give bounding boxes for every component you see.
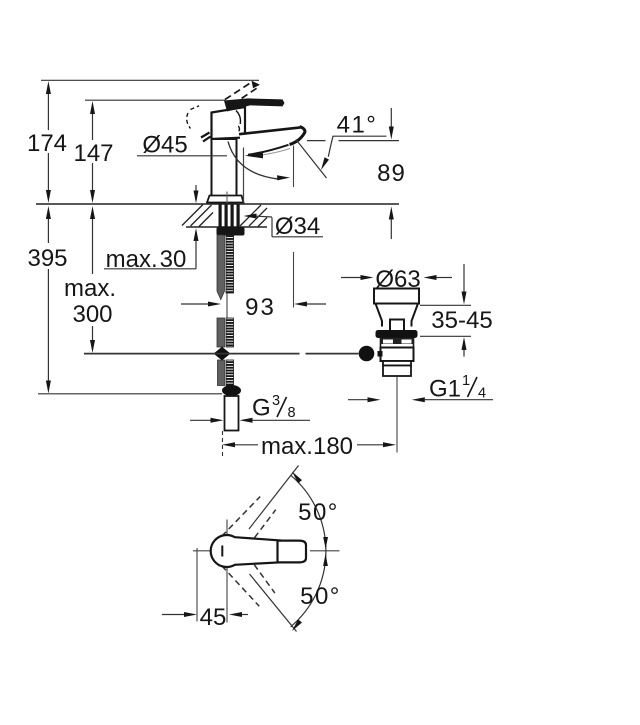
dimension 35-45 bbox=[431, 264, 492, 357]
threaded shank through counter bbox=[219, 205, 240, 228]
svg-text:45: 45 bbox=[200, 604, 227, 631]
spout bbox=[239, 127, 305, 155]
svg-text:41°: 41° bbox=[337, 112, 378, 139]
label G3/8 bbox=[190, 393, 310, 423]
dimension max.30 bbox=[104, 185, 199, 273]
svg-text:93: 93 bbox=[245, 294, 276, 321]
waste cone bbox=[376, 304, 419, 327]
dimension 147 bbox=[73, 101, 113, 203]
waste upper flange bbox=[374, 289, 419, 304]
waste notch section bbox=[381, 338, 414, 348]
svg-text:max.: max. bbox=[64, 275, 116, 302]
svg-text:Ø45: Ø45 bbox=[142, 132, 187, 159]
svg-text:35-45: 35-45 bbox=[431, 307, 492, 334]
handle swing upper ray bbox=[249, 466, 299, 530]
svg-text:max. 30: max. 30 bbox=[106, 246, 187, 273]
label Ø45 bbox=[137, 132, 227, 159]
svg-text:3: 3 bbox=[272, 393, 280, 409]
waste seal band bbox=[376, 330, 418, 338]
dimension max.300 bbox=[64, 206, 116, 353]
svg-text:89: 89 bbox=[377, 160, 406, 187]
label Ø34 bbox=[244, 213, 324, 240]
dimension 174 bbox=[27, 81, 67, 203]
faucet base plinth bbox=[207, 196, 244, 203]
dimension 89 bbox=[377, 108, 406, 239]
svg-text:G1: G1 bbox=[429, 376, 461, 403]
faucet head (cartridge housing) bbox=[212, 107, 246, 139]
handle horizontal centerline bbox=[193, 550, 340, 552]
pull rod upper segment bbox=[217, 235, 225, 300]
handle rotated stem dashed (upper) bbox=[222, 494, 278, 553]
counter hatching left bbox=[182, 205, 213, 227]
axis dashes below hose bbox=[222, 431, 224, 459]
svg-text:Ø34: Ø34 bbox=[275, 213, 320, 240]
svg-text:Ø63: Ø63 bbox=[375, 266, 420, 293]
handle swing arc bbox=[291, 472, 328, 632]
svg-text:8: 8 bbox=[288, 405, 296, 421]
waste pivot box bbox=[390, 320, 404, 332]
waste body bbox=[381, 348, 414, 362]
rod ball joint bbox=[359, 346, 383, 362]
waste centerline below bbox=[396, 377, 398, 453]
waste tailpipe bbox=[383, 366, 411, 377]
dimension Ø63 bbox=[341, 266, 452, 293]
svg-text:147: 147 bbox=[73, 140, 113, 167]
rod centerline in gap bbox=[226, 294, 228, 319]
lever rear tip strokes bbox=[201, 133, 211, 142]
spout outlet reference line bbox=[307, 140, 399, 142]
mounting nut bbox=[217, 227, 245, 236]
handle vertical centerline bbox=[226, 520, 228, 623]
svg-text:4: 4 bbox=[478, 386, 486, 402]
pull rod lower segment bbox=[218, 360, 225, 386]
dimension max.180 bbox=[222, 433, 396, 460]
35-45 upper reference line bbox=[420, 304, 471, 306]
pull rod middle segment bbox=[217, 318, 225, 347]
svg-text:50°: 50° bbox=[298, 499, 339, 526]
horizontal pop-up rod line bbox=[84, 353, 359, 355]
countertop line bbox=[36, 203, 399, 205]
svg-text:1: 1 bbox=[462, 373, 470, 389]
svg-text:174: 174 bbox=[27, 130, 67, 157]
handle swing lower ray bbox=[250, 574, 297, 632]
threaded rod middle segment bbox=[226, 318, 234, 347]
label G1 1/4 bbox=[348, 373, 493, 403]
dimension 45 bbox=[162, 548, 248, 631]
dimension 395 bbox=[27, 206, 67, 394]
svg-text:max.180: max.180 bbox=[261, 433, 353, 460]
dimension 93 bbox=[181, 294, 326, 321]
faucet centerline above counter bbox=[226, 192, 228, 204]
svg-text:G: G bbox=[252, 395, 271, 422]
handle grip (top view) bbox=[211, 535, 292, 567]
svg-text:50°: 50° bbox=[300, 583, 341, 610]
spout swing arc bbox=[228, 142, 290, 181]
faucet body column bbox=[212, 139, 237, 203]
label 50 deg lower bbox=[300, 583, 341, 610]
lever handle (side view, solid) bbox=[224, 98, 285, 111]
lever handle raised position (dashed) bbox=[225, 81, 260, 105]
147 reference line bbox=[85, 99, 226, 101]
threaded rod upper segment bbox=[226, 235, 234, 293]
svg-text:395: 395 bbox=[27, 245, 67, 272]
counter hatching right bbox=[240, 205, 267, 227]
35-45 lower reference line bbox=[420, 335, 471, 337]
41 deg ray bbox=[296, 140, 327, 179]
395 bottom reference line bbox=[38, 393, 222, 395]
handle grip tick bbox=[221, 546, 223, 557]
waste step bbox=[383, 361, 411, 366]
label 50 deg upper bbox=[298, 499, 339, 526]
label 41 deg bbox=[321, 112, 387, 171]
svg-text:300: 300 bbox=[72, 301, 112, 328]
lever rear swing arc (dashed) bbox=[187, 106, 199, 129]
pop-up rod junction diamond bbox=[214, 347, 231, 361]
body right extension line bbox=[243, 148, 245, 203]
hose connector bbox=[225, 396, 239, 431]
hose nut bbox=[222, 385, 241, 396]
spout underside end arrow bbox=[245, 153, 264, 159]
counter slab bottom line bbox=[186, 226, 267, 228]
handle stub bbox=[278, 541, 307, 563]
top reference line bbox=[41, 79, 259, 81]
threaded rod lower segment bbox=[226, 360, 234, 386]
cartridge detail curve bbox=[236, 111, 241, 132]
spout tip extension line bbox=[293, 146, 295, 308]
handle rotated stem dashed (lower) bbox=[222, 548, 278, 607]
